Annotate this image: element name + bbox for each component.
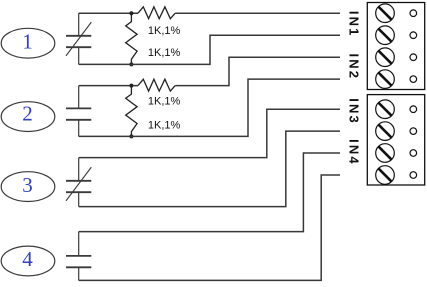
svg-text:1K,1%: 1K,1% xyxy=(148,25,181,37)
J1 pin hole 3 xyxy=(410,54,417,61)
J2 pin hole 8 xyxy=(410,172,417,179)
wire: ch1 top, left corner to resistor xyxy=(79,12,138,14)
wire: ch2 top, resistor to terminal IN2 screw 3 xyxy=(175,57,340,85)
J2 pin hole 5 xyxy=(410,106,417,113)
junction dot ch1 top xyxy=(129,11,133,15)
J2 screw 6 xyxy=(376,122,395,141)
J1 screw 4 xyxy=(376,70,395,89)
J1 screw 3 xyxy=(376,48,395,67)
J2 pin hole 7 xyxy=(410,150,417,157)
capacitor C3 (variable, with slash) xyxy=(66,158,91,207)
capacitor C2 xyxy=(66,86,91,137)
svg-text:1K,1%: 1K,1% xyxy=(148,96,181,108)
junction dot ch2 bottom xyxy=(129,134,133,138)
J1 screw 2 xyxy=(376,26,395,45)
svg-text:1: 1 xyxy=(22,29,33,53)
node 2 (channel 2 label ellipse) xyxy=(1,102,55,132)
resistor R3 1K,1% (horizontal, ch2 top) xyxy=(138,79,175,91)
wire: ch2 top, left corner to resistor xyxy=(79,85,138,87)
svg-text:1K,1%: 1K,1% xyxy=(148,47,181,59)
svg-text:1K,1%: 1K,1% xyxy=(148,120,181,132)
resistor R4 1K,1% (vertical, ch2) xyxy=(126,86,137,137)
wire: ch4 top to terminal IN4 screw 7 xyxy=(79,153,340,232)
svg-text:4: 4 xyxy=(22,247,33,271)
wire: ch3 top to terminal IN3 screw 5 xyxy=(79,109,340,157)
svg-text:2: 2 xyxy=(22,102,33,126)
capacitor C1 (variable, with slash) xyxy=(66,13,91,64)
node 1 (channel 1 label ellipse) xyxy=(1,28,55,58)
svg-text:3: 3 xyxy=(22,173,33,197)
capacitor C4 xyxy=(66,232,91,281)
J2 screw 7 xyxy=(376,144,395,163)
resistor R2 1K,1% (vertical, ch1) xyxy=(126,13,137,64)
wire: ch4 bottom to terminal IN4 screw 8 xyxy=(79,175,340,280)
node 4 (channel 4 label ellipse) xyxy=(1,246,55,276)
J1 pin hole 1 xyxy=(410,10,417,17)
junction dot ch1 bottom xyxy=(129,62,133,66)
connector J2 body (terminal block 2) xyxy=(367,95,424,185)
J1 pin hole 2 xyxy=(410,32,417,39)
wire: ch1 top, resistor to terminal IN1 screw 1 xyxy=(175,12,340,14)
wire: ch2 bottom to terminal IN2 screw 4 xyxy=(79,79,340,136)
J2 pin hole 6 xyxy=(410,128,417,135)
J2 screw 5 xyxy=(376,100,395,119)
node 3 (channel 3 label ellipse) xyxy=(1,172,55,202)
resistor R1 1K,1% (horizontal, ch1 top) xyxy=(138,7,175,19)
J2 screw 8 xyxy=(376,166,395,185)
junction dot ch2 top xyxy=(129,84,133,88)
wire: ch3 bottom to terminal IN3 screw 6 xyxy=(79,131,340,207)
connector J1 body (terminal block 1) xyxy=(367,3,424,90)
J1 pin hole 4 xyxy=(410,76,417,83)
wire: ch1 bottom to terminal IN1 screw 2 xyxy=(79,35,340,64)
J1 screw 1 xyxy=(376,4,395,23)
